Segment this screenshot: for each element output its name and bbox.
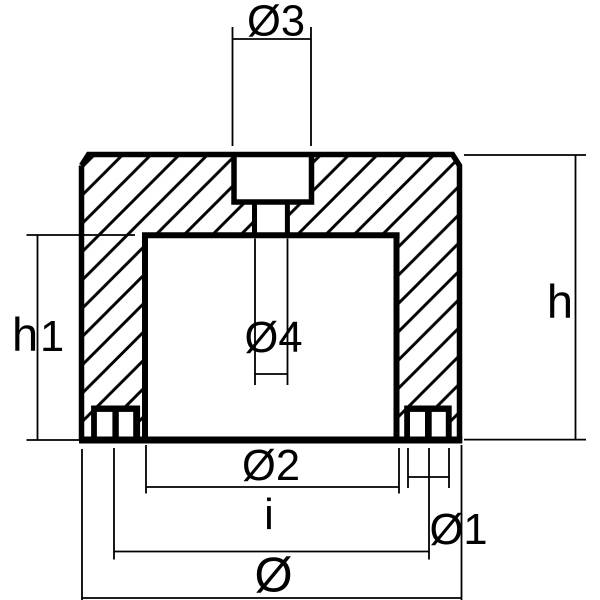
slot Ø4 outline — [255, 201, 288, 235]
svg-text:Ø1: Ø1 — [429, 506, 487, 554]
dimension Ø4 extension lines — [255, 239, 288, 386]
recess Ø3 outline — [234, 155, 312, 202]
right foot block — [404, 406, 452, 444]
dimension Ø2 line — [146, 486, 399, 488]
svg-text:Ø4: Ø4 — [244, 314, 302, 362]
dimension Ø line — [82, 597, 462, 599]
dimension Ø extension lines — [82, 445, 462, 600]
dimension h1 extension lines — [27, 235, 136, 440]
dimension Ø4 line — [255, 373, 288, 375]
dimension Ø3 extension lines — [233, 27, 312, 146]
svg-text:Ø3: Ø3 — [247, 0, 305, 46]
left foot block — [91, 406, 140, 444]
dimension Ø3 line — [233, 38, 312, 40]
dimension h1 line — [37, 235, 39, 440]
svg-text:Ø: Ø — [254, 549, 292, 600]
dimension i line — [114, 551, 429, 553]
svg-text:1: 1 — [40, 313, 64, 361]
dimension h line — [575, 155, 577, 440]
dimension Ø2 extension lines — [146, 445, 399, 494]
body outer outline — [82, 155, 460, 442]
dimension h extension lines — [464, 155, 586, 440]
bottom edge — [79, 437, 462, 444]
svg-text:h: h — [547, 275, 573, 328]
dimension Ø1 line — [408, 476, 449, 478]
hatched body cross-section — [82, 155, 460, 441]
dimension i extension lines — [114, 448, 429, 560]
svg-text:Ø2: Ø2 — [242, 442, 300, 490]
cavity outline — [142, 235, 400, 438]
dimension Ø1 extension lines — [408, 448, 449, 488]
svg-text:i: i — [264, 491, 274, 539]
svg-text:h: h — [12, 308, 38, 361]
